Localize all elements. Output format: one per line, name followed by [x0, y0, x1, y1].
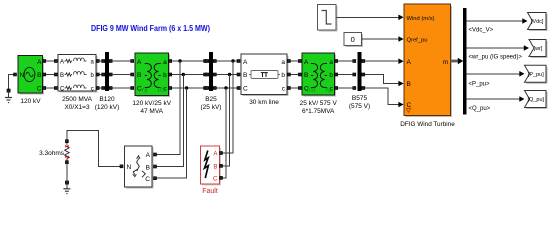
svg-text:m: m	[443, 59, 448, 66]
svg-text:Yg: Yg	[325, 88, 331, 94]
svg-text:A: A	[243, 59, 248, 66]
svg-text:<Q_pu>: <Q_pu>	[469, 106, 491, 112]
svg-text:C: C	[60, 87, 65, 93]
wire DFIG m to bus selector	[451, 58, 464, 64]
wire B120 to transformer1 A	[112, 60, 134, 63]
wire source A to impedance A	[43, 60, 58, 63]
wire source B to impedance B	[43, 73, 58, 76]
source impedance block 2500 MVA	[58, 55, 98, 112]
wire wr_pu to goto wr	[467, 45, 529, 60]
voltage source block 120 kV	[18, 56, 44, 106]
svg-text:B120: B120	[99, 96, 115, 103]
wire T2 a to B575	[335, 60, 356, 63]
svg-text:[Q_pu]: [Q_pu]	[528, 97, 545, 103]
wire T1 b to B25 (node B1)	[169, 73, 207, 76]
annotation title	[91, 23, 210, 33]
wire line b to T2 B	[287, 73, 301, 76]
svg-text:A: A	[304, 59, 309, 66]
wire step to DFIG Wind	[337, 15, 404, 21]
ground G1	[5, 92, 12, 102]
svg-text:2500 MVA: 2500 MVA	[62, 96, 93, 103]
svg-text:6*1.75MVA: 6*1.75MVA	[302, 108, 335, 115]
svg-text:<Vdc_V>: <Vdc_V>	[469, 28, 494, 34]
resistor R1 3.3ohms	[39, 140, 69, 164]
wire source C to impedance C	[43, 87, 58, 90]
goto tag wr	[529, 40, 548, 59]
svg-text:X0/X1=3: X0/X1=3	[64, 104, 90, 111]
svg-text:C: C	[243, 86, 248, 93]
wire node C1 down to grounding transformer C	[156, 88, 187, 178]
svg-text:C: C	[213, 175, 218, 182]
svg-text:C: C	[37, 86, 42, 93]
svg-text:B575: B575	[352, 95, 368, 102]
wire resistor to ground	[65, 164, 68, 185]
svg-text:a: a	[329, 59, 333, 66]
svg-text:B: B	[243, 72, 247, 79]
bus selector bar	[463, 8, 467, 115]
bus B575	[349, 52, 370, 110]
svg-text:A: A	[137, 59, 142, 66]
svg-text:c: c	[91, 87, 94, 93]
svg-text:(575 V): (575 V)	[349, 103, 370, 110]
svg-text:B: B	[37, 72, 41, 79]
svg-text:120 kV: 120 kV	[20, 98, 41, 105]
transformer T1 120kV/25kV	[132, 53, 171, 115]
bus B120	[95, 52, 120, 111]
wire Vdc_V to goto Vdc	[467, 18, 528, 33]
step block (wind speed)	[318, 5, 338, 32]
wire B25 to line B (node B2)	[216, 73, 240, 76]
wire B120 to transformer1 B	[112, 73, 134, 76]
svg-text:[P_pu]: [P_pu]	[528, 72, 544, 78]
wire node A1 down to grounding transformer A	[156, 61, 180, 155]
wire B575 c to DFIG C	[365, 88, 404, 107]
constant block 0	[344, 33, 363, 48]
wire B120 to transformer1 C	[112, 87, 134, 90]
svg-text:B: B	[407, 81, 411, 88]
svg-text:<P_pu>: <P_pu>	[469, 82, 491, 88]
svg-text:(25 kV): (25 kV)	[201, 104, 222, 111]
wire B25 to line C (node C2)	[216, 86, 240, 89]
grounding transformer block	[125, 146, 157, 189]
wire line a to T2 A	[287, 60, 301, 63]
svg-text:(120 kV): (120 kV)	[95, 104, 120, 111]
svg-text:B: B	[146, 164, 150, 171]
svg-text:Fault: Fault	[202, 188, 218, 195]
svg-text:b: b	[281, 72, 285, 79]
svg-text:A: A	[37, 59, 42, 66]
wire T2 b to B575	[335, 73, 356, 76]
wire node B2 down to fault B	[222, 75, 230, 166]
svg-text:b: b	[163, 72, 167, 79]
svg-text:A: A	[60, 60, 64, 66]
svg-text:N: N	[20, 72, 25, 79]
svg-text:A: A	[407, 59, 412, 66]
svg-text:Yg: Yg	[141, 88, 147, 94]
svg-text:A: A	[146, 152, 151, 159]
transformer T2 25kV/575V	[300, 53, 338, 115]
goto tag Vdc	[528, 13, 548, 32]
wire resistor top to grounding transformer N	[67, 130, 123, 168]
ground G2	[63, 184, 70, 193]
svg-text:B: B	[213, 163, 217, 170]
svg-text:<wr_pu (IG speed)>: <wr_pu (IG speed)>	[469, 55, 523, 61]
wire constant to DFIG Qref	[362, 36, 404, 42]
wire impedance a to B120	[96, 60, 105, 63]
wire node C2 down to fault C	[222, 88, 226, 178]
wire N of source to ground	[7, 73, 17, 92]
wire T2 c to B575	[335, 87, 356, 90]
wire impedance c to B120	[96, 87, 105, 90]
svg-text:b: b	[329, 72, 333, 79]
wire Q_pu to goto Q_pu	[467, 96, 525, 112]
wire B575 a to DFIG A	[365, 58, 404, 64]
DFIG Wind Turbine block U1	[400, 4, 455, 128]
bus B25	[201, 52, 222, 111]
svg-text:[Vdc]: [Vdc]	[531, 19, 544, 25]
wire node A2 down to fault A	[222, 61, 233, 153]
wire B575 b to DFIG B	[365, 75, 404, 87]
wire T1 a to B25 (node A1)	[169, 59, 207, 62]
svg-text:DFIG 9 MW Wind Farm (6 x 1.5 M: DFIG 9 MW Wind Farm (6 x 1.5 MW)	[91, 23, 210, 33]
svg-text:B25: B25	[205, 96, 217, 103]
goto tag P_pu	[525, 65, 548, 84]
svg-text:B: B	[137, 72, 141, 79]
svg-text:D11: D11	[307, 88, 316, 94]
svg-text:B: B	[304, 72, 308, 79]
wire node B1 down to grounding transformer B	[156, 75, 183, 167]
svg-text:47 MVA: 47 MVA	[140, 108, 163, 115]
svg-text:B: B	[60, 73, 64, 79]
svg-text:30 km line: 30 km line	[249, 99, 279, 106]
svg-text:C: C	[145, 176, 150, 183]
svg-text:a: a	[163, 59, 167, 66]
svg-text:[wr]: [wr]	[534, 46, 543, 52]
svg-text:Qref_pu: Qref_pu	[407, 38, 428, 44]
svg-text:N: N	[127, 164, 132, 171]
svg-text:0: 0	[351, 35, 355, 44]
svg-text:120 kV/25 kV: 120 kV/25 kV	[132, 100, 171, 107]
wire line c to T2 C	[287, 87, 301, 90]
svg-text:25 kV/ 575 V: 25 kV/ 575 V	[300, 100, 338, 107]
wire B25 to line A (node A2)	[216, 59, 240, 62]
goto tag Q_pu	[525, 91, 548, 110]
svg-text:DFIG Wind Turbine: DFIG Wind Turbine	[400, 121, 455, 128]
wire P_pu to goto P_pu	[467, 71, 525, 88]
svg-text:a: a	[281, 59, 285, 66]
svg-text:Wind (m/s): Wind (m/s)	[407, 16, 435, 22]
wire impedance b to B120	[96, 73, 105, 76]
distributed line block 30 km line	[241, 54, 289, 106]
wire T1 c to B25 (node C1)	[169, 86, 207, 89]
svg-text:D1: D1	[158, 88, 165, 94]
svg-text:3.3ohms: 3.3ohms	[39, 150, 65, 157]
three-phase fault block	[201, 146, 223, 195]
